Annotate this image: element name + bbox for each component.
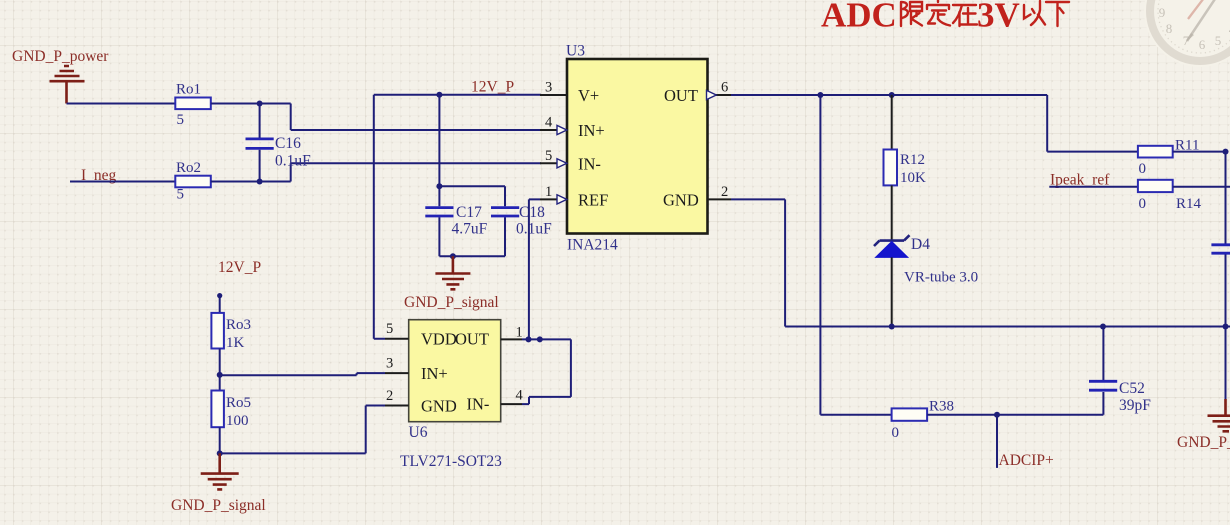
svg-text:2: 2 — [386, 388, 393, 404]
ground GND_P (right edge) — [1177, 327, 1230, 452]
diode D4 zener — [874, 235, 978, 285]
svg-text:C16: C16 — [275, 135, 301, 152]
U3 pin 6 OUT — [664, 80, 731, 106]
svg-text:R14: R14 — [1176, 196, 1202, 212]
svg-text:12V_P: 12V_P — [471, 79, 514, 96]
svg-text:2: 2 — [721, 184, 728, 200]
svg-text:Ro1: Ro1 — [176, 82, 201, 98]
U3 pin 1 REF — [540, 184, 608, 209]
resistor Ro2 — [175, 160, 211, 203]
svg-text:GND_P_signal: GND_P_signal — [171, 497, 266, 514]
node junction ADCIP+ — [994, 412, 1000, 418]
U6 pin 4 IN- — [467, 388, 524, 414]
U3 pin 3 V+ — [540, 80, 599, 106]
wire C17 branch vertical — [438, 95, 440, 187]
svg-text:3: 3 — [545, 80, 552, 96]
node junction Ro2/C16 — [257, 179, 263, 185]
svg-text:V+: V+ — [578, 86, 599, 105]
node junction divider mid — [217, 372, 223, 378]
wire U3 GND to rail — [731, 199, 1230, 326]
svg-text:4: 4 — [545, 115, 553, 131]
svg-text:VDD: VDD — [421, 330, 457, 349]
svg-text:0.1uF: 0.1uF — [516, 221, 552, 238]
wire R38 to C52 bottom — [927, 392, 1103, 415]
svg-text:Ro2: Ro2 — [176, 160, 201, 176]
svg-text:IN+: IN+ — [421, 364, 448, 383]
U6 pin 2 GND — [385, 388, 457, 415]
resistor Ro5 — [211, 391, 251, 430]
svg-text:8: 8 — [1166, 21, 1173, 36]
op-amp U3 INA214 body — [566, 43, 708, 254]
svg-text:10K: 10K — [900, 170, 926, 186]
ground GND_P_signal (bottom-left) — [171, 453, 266, 514]
net label 12V_P top — [471, 79, 514, 96]
svg-text:3: 3 — [386, 356, 393, 372]
svg-text:ADC: ADC — [821, 0, 897, 35]
svg-text:5: 5 — [1215, 33, 1222, 48]
capacitor C18 — [491, 186, 552, 256]
svg-text:U3: U3 — [566, 43, 585, 60]
wire Ro5 to ground — [219, 427, 221, 453]
wire Ipeak_ref to R14 — [1049, 186, 1138, 188]
capacitor C16 — [246, 104, 312, 182]
svg-text:0.1uF: 0.1uF — [275, 153, 311, 170]
U3 pin 4 IN+ — [540, 115, 605, 141]
svg-text:0: 0 — [892, 425, 900, 441]
clock watermark — [1144, 0, 1230, 67]
node junction rail/GND_P — [1223, 324, 1229, 330]
svg-text:IN-: IN- — [578, 154, 601, 173]
svg-text:R12: R12 — [900, 152, 925, 168]
U6 pin 5 VDD — [385, 321, 457, 349]
node junction rail/D4 — [889, 324, 895, 330]
svg-text:GND_P_si: GND_P_si — [1177, 434, 1230, 451]
wire divider mid to U6 IN+ — [220, 373, 385, 375]
U6 pin 3 IN+ — [385, 356, 448, 383]
wire Ro2 to C16 bottom junction and to IN- — [211, 163, 541, 181]
wire C17/C18 bottom rail — [439, 255, 505, 257]
svg-text:1K: 1K — [226, 335, 245, 351]
svg-text:VR-tube 3.0: VR-tube 3.0 — [904, 270, 978, 286]
resistor Ro1 — [175, 82, 211, 129]
node junction rail/C52 — [1100, 324, 1106, 330]
svg-text:5: 5 — [177, 112, 185, 128]
ground GND_P_signal (middle) — [404, 256, 499, 311]
svg-text:Ro3: Ro3 — [226, 317, 251, 333]
node junction OUT/R38 branch — [817, 92, 823, 98]
svg-text:GND: GND — [663, 190, 699, 209]
U6 pin 1 OUT — [455, 324, 523, 348]
svg-text:INA214: INA214 — [567, 237, 618, 254]
svg-text:U6: U6 — [409, 424, 428, 441]
svg-text:R38: R38 — [929, 399, 954, 415]
svg-text:C17: C17 — [456, 204, 482, 221]
net label ADCIP+ — [999, 452, 1054, 469]
net label Ipeak_ref — [1050, 172, 1110, 189]
wire 12V_P down to Ro3 — [219, 296, 221, 313]
wire U6 GND loop to ground — [220, 406, 385, 454]
svg-text:6: 6 — [721, 80, 728, 96]
char 以 — [1024, 1, 1045, 25]
svg-text:1: 1 — [545, 184, 552, 200]
wire C17/C18 top rail — [439, 185, 505, 187]
svg-text:4.7uF: 4.7uF — [452, 221, 488, 238]
wire D4 to GND rail — [891, 257, 893, 326]
svg-text:39pF: 39pF — [1119, 397, 1151, 414]
svg-text:OUT: OUT — [455, 330, 489, 349]
char 在 — [953, 5, 977, 26]
capacitor C17 — [425, 186, 487, 256]
node junction Ro1/C16 — [257, 101, 263, 107]
wire I_neg to Ro2 — [70, 181, 176, 183]
svg-text:3V: 3V — [977, 0, 1020, 35]
node junction OUT feedback — [537, 336, 543, 342]
svg-text:0: 0 — [1139, 161, 1147, 177]
svg-text:GND_P_signal: GND_P_signal — [404, 294, 499, 311]
node junction OUT/R12 branch — [889, 92, 895, 98]
svg-text:100: 100 — [226, 413, 249, 429]
wire GND_P_power to Ro1 — [67, 103, 177, 105]
resistor R14 — [1138, 180, 1202, 212]
capacitor C52 — [1089, 327, 1151, 415]
svg-text:GND: GND — [421, 396, 457, 415]
svg-text:4: 4 — [516, 388, 524, 404]
char 限 — [901, 2, 922, 26]
node junction Ro5 bottom — [217, 450, 223, 456]
wire Ro3 to Ro5 — [219, 349, 221, 391]
node junction R11 corner — [1223, 149, 1229, 155]
svg-text:5: 5 — [177, 187, 185, 203]
net label 12V_P left — [218, 259, 261, 276]
svg-text:5: 5 — [545, 148, 552, 164]
svg-text:REF: REF — [578, 190, 608, 209]
node junction 12V_P / C17 branch — [436, 92, 442, 98]
resistor Ro3 — [211, 313, 251, 351]
char 下 — [1046, 2, 1069, 26]
wire R38 branch vertical — [820, 95, 892, 415]
svg-text:TLV271-SOT23: TLV271-SOT23 — [400, 453, 502, 470]
svg-text:D4: D4 — [911, 236, 930, 253]
resistor R38 — [892, 399, 955, 442]
net label I_neg — [81, 167, 117, 184]
svg-text:9: 9 — [1159, 5, 1166, 20]
resistor R12 — [884, 150, 927, 187]
wire U3 REF to feedback vertical — [529, 199, 540, 339]
wire ADCIP+ stub — [996, 415, 998, 468]
U3 pin 5 IN- — [540, 148, 601, 173]
svg-text:0: 0 — [1139, 196, 1147, 212]
wire vertical 12V_P down to U6 VDD — [374, 95, 385, 339]
svg-text:OUT: OUT — [664, 86, 698, 105]
ground GND_P_power — [12, 48, 109, 104]
svg-text:Ro5: Ro5 — [226, 395, 251, 411]
svg-text:12V_P: 12V_P — [218, 259, 261, 276]
node 12V_P port dot — [217, 293, 222, 298]
node junction ground C17 — [450, 253, 456, 259]
node junction REF feedback — [526, 336, 532, 342]
op-amp U6 TLV271 body — [400, 320, 502, 470]
svg-text:IN+: IN+ — [578, 121, 605, 140]
resistor R11 — [1138, 138, 1200, 178]
capacitor C53 (edge, partly clipped) — [1211, 245, 1230, 327]
svg-text:1: 1 — [516, 324, 523, 340]
title ADC limit text — [821, 0, 1069, 35]
svg-text:ADCIP+: ADCIP+ — [999, 452, 1054, 469]
wire 12V_P rail to V+ pin — [374, 94, 541, 96]
wire U3 OUT rail — [731, 95, 1138, 152]
wire R12 branch top — [891, 95, 893, 150]
wire U6 feedback loop OUT to IN- — [522, 339, 571, 404]
svg-text:IN-: IN- — [467, 395, 490, 414]
svg-text:6: 6 — [1199, 37, 1206, 52]
svg-text:GND_P_power: GND_P_power — [12, 48, 109, 65]
wire R14 to right edge — [1173, 186, 1230, 188]
svg-text:C52: C52 — [1119, 380, 1145, 397]
svg-text:C18: C18 — [519, 204, 545, 221]
svg-text:5: 5 — [386, 321, 393, 337]
node junction C17 top — [436, 183, 442, 189]
wire Ro1 to C16 top junction and to IN+ — [211, 104, 541, 131]
char 定 — [927, 0, 950, 26]
wire R12 to D4 — [891, 185, 893, 240]
U3 pin 2 GND — [663, 184, 731, 209]
wire R11 to right vertical — [1173, 152, 1226, 244]
